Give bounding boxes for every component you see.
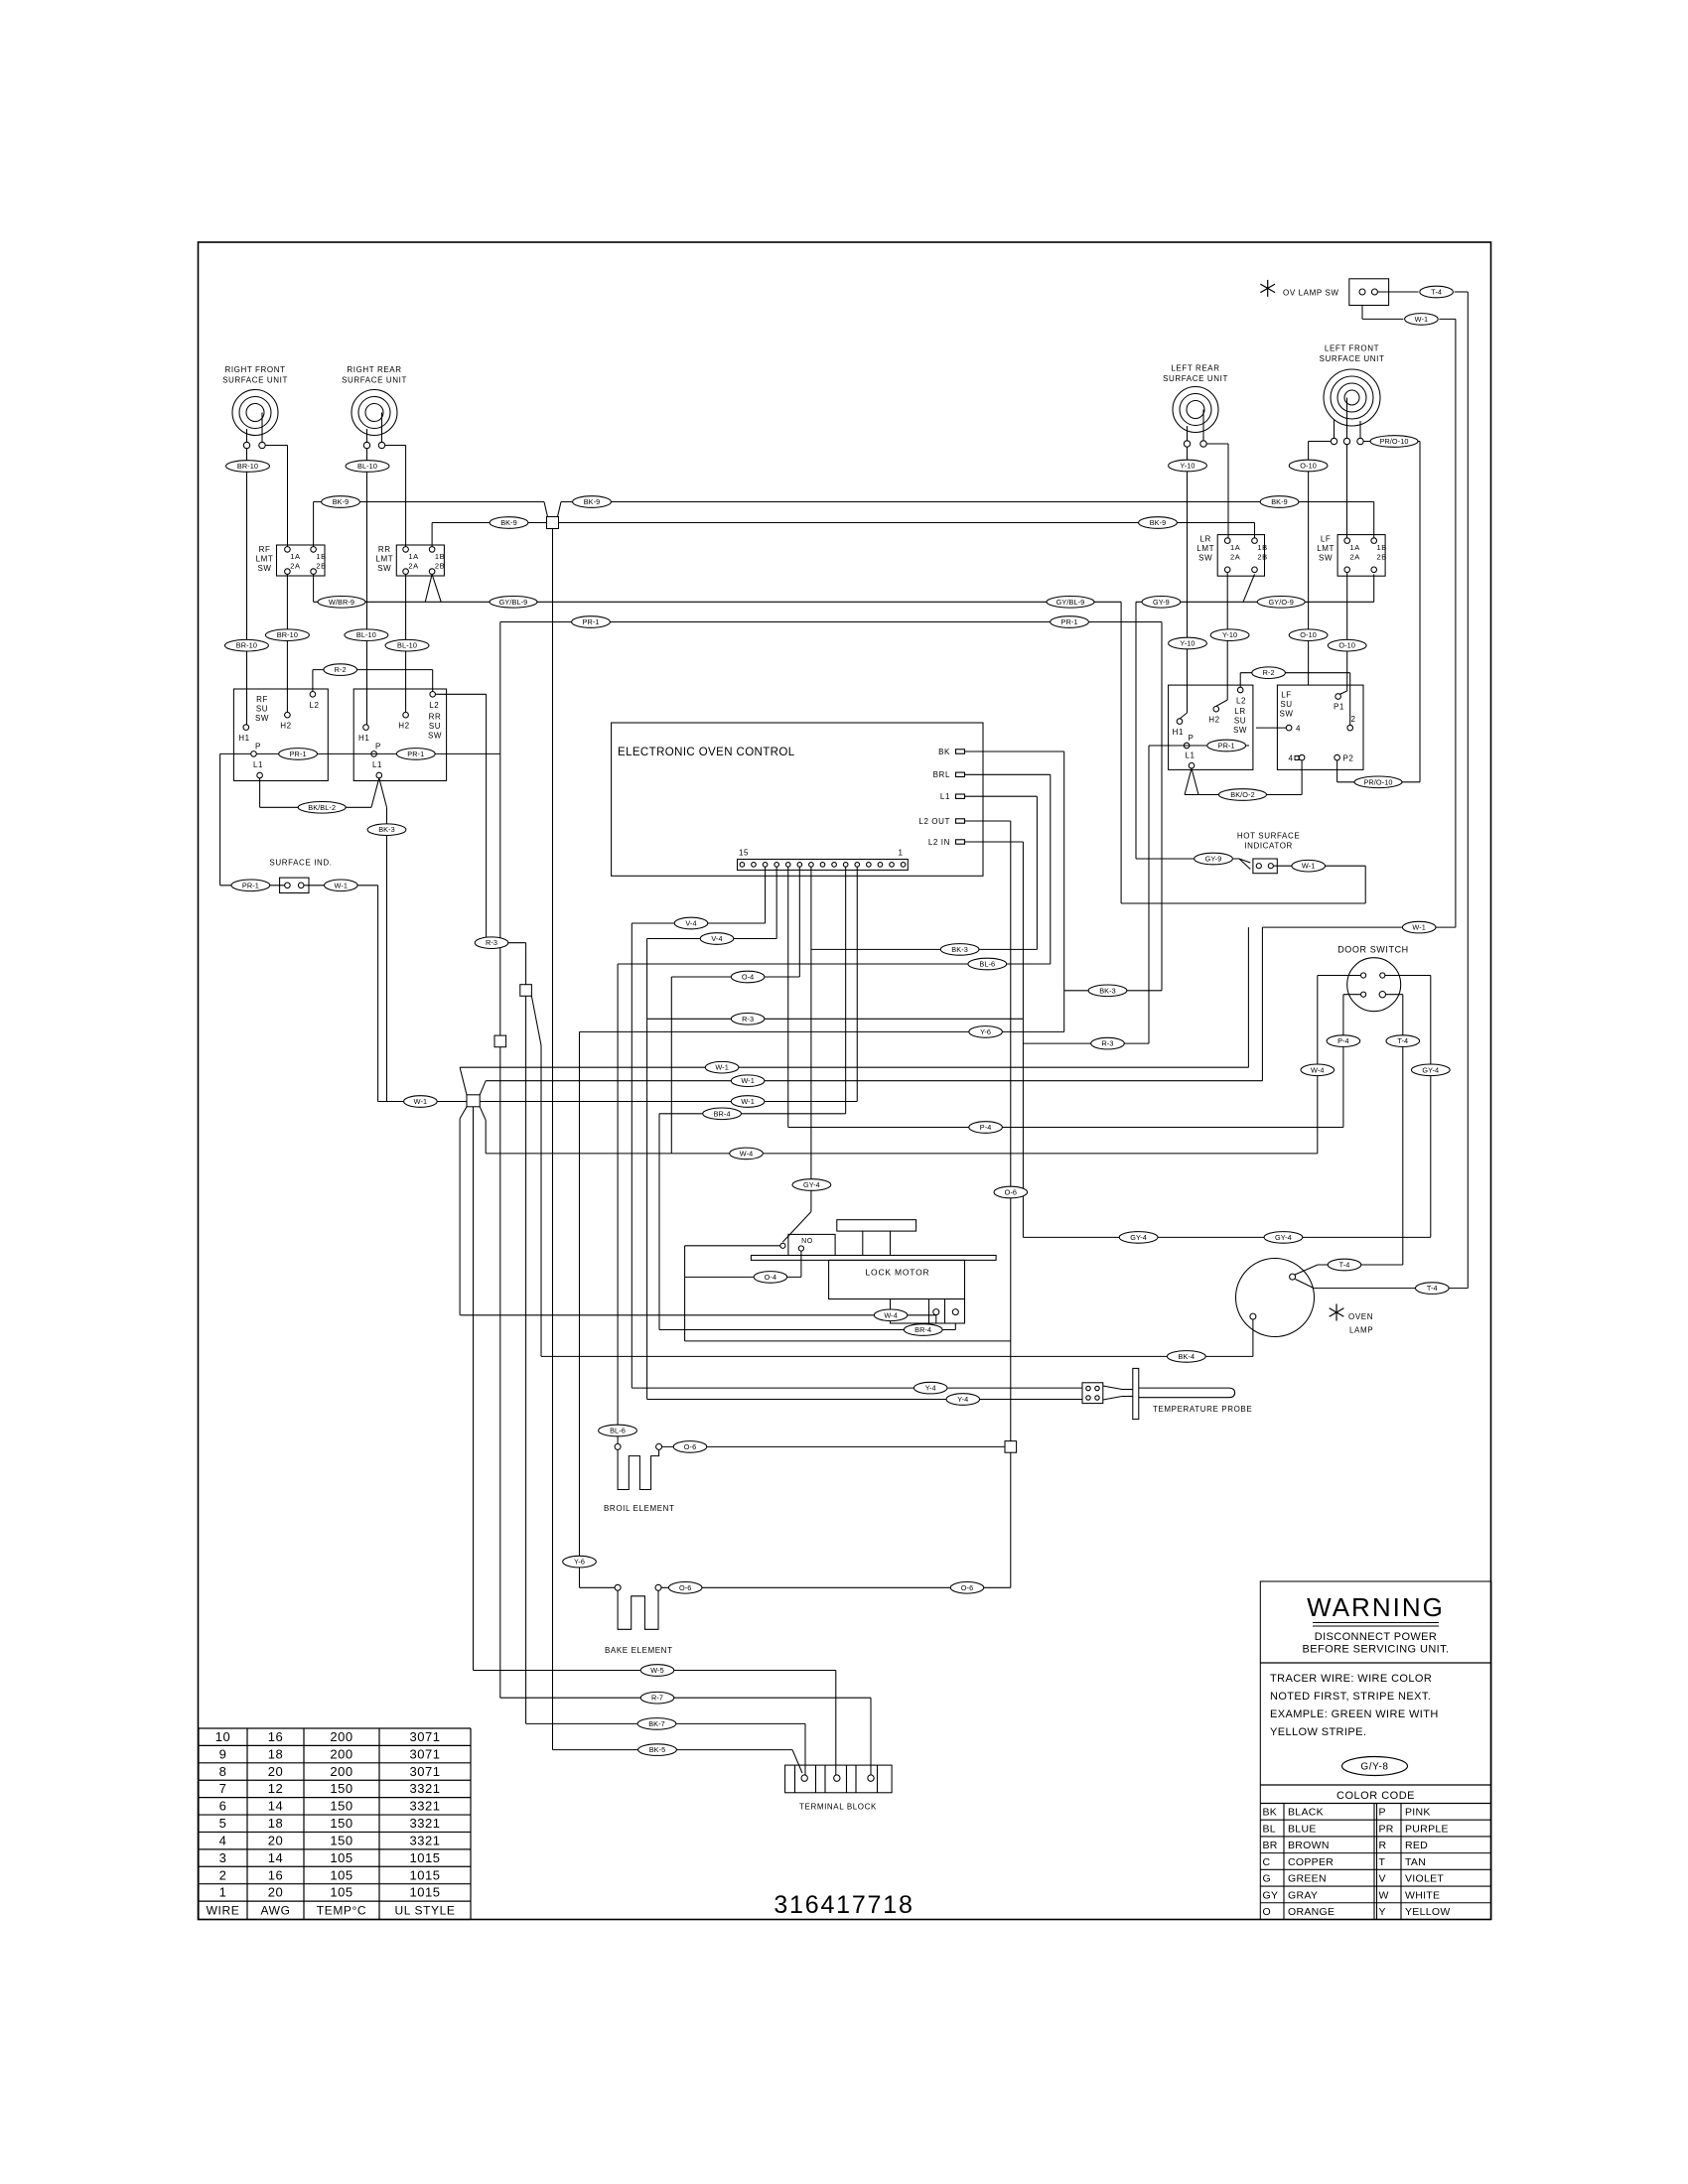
svg-text:SW: SW	[377, 564, 391, 573]
svg-text:14: 14	[268, 1799, 283, 1814]
svg-text:O-6: O-6	[684, 1442, 696, 1451]
svg-text:H1: H1	[238, 734, 249, 743]
svg-text:LAMP: LAMP	[1349, 1326, 1373, 1335]
svg-text:BROWN: BROWN	[1288, 1840, 1330, 1851]
svg-text:BR: BR	[1263, 1840, 1278, 1851]
svg-text:BK-9: BK-9	[1150, 518, 1167, 527]
svg-text:Y: Y	[1379, 1906, 1386, 1918]
svg-text:T-4: T-4	[1431, 288, 1442, 297]
svg-text:P: P	[1189, 734, 1195, 743]
svg-text:C: C	[1263, 1856, 1271, 1868]
svg-text:RED: RED	[1405, 1840, 1428, 1851]
svg-text:1015: 1015	[410, 1885, 441, 1900]
svg-text:GY-4: GY-4	[1130, 1233, 1147, 1242]
svg-text:1A: 1A	[290, 552, 300, 561]
svg-text:16: 16	[268, 1729, 283, 1744]
svg-text:BRL: BRL	[933, 770, 950, 779]
svg-text:1015: 1015	[410, 1850, 441, 1865]
svg-text:PR-1: PR-1	[290, 750, 307, 758]
svg-text:G: G	[1263, 1873, 1271, 1885]
svg-text:2A: 2A	[290, 561, 300, 570]
svg-text:1A: 1A	[1230, 543, 1240, 552]
svg-text:P: P	[375, 743, 381, 751]
svg-text:GRAY: GRAY	[1288, 1889, 1318, 1901]
svg-text:SW: SW	[257, 564, 271, 573]
svg-text:YELLOW STRIPE.: YELLOW STRIPE.	[1270, 1726, 1366, 1738]
svg-text:BROIL ELEMENT: BROIL ELEMENT	[604, 1504, 675, 1513]
svg-text:GY-4: GY-4	[803, 1180, 820, 1189]
svg-text:O-6: O-6	[1005, 1188, 1017, 1197]
svg-text:PURPLE: PURPLE	[1405, 1823, 1449, 1835]
svg-text:Y-10: Y-10	[1222, 630, 1237, 639]
svg-text:BK-9: BK-9	[500, 518, 517, 527]
svg-text:V-4: V-4	[711, 934, 722, 943]
svg-text:SU: SU	[256, 705, 268, 714]
svg-text:200: 200	[330, 1746, 352, 1761]
svg-text:P-4: P-4	[1337, 1036, 1349, 1045]
svg-text:2B: 2B	[316, 561, 326, 570]
svg-text:SURFACE UNIT: SURFACE UNIT	[1320, 354, 1385, 363]
svg-text:WHITE: WHITE	[1405, 1889, 1440, 1901]
svg-text:AWG: AWG	[260, 1904, 290, 1918]
svg-text:LMT: LMT	[256, 555, 274, 564]
svg-text:W-1: W-1	[741, 1097, 755, 1106]
svg-text:150: 150	[330, 1781, 352, 1796]
svg-text:BR-10: BR-10	[237, 462, 258, 471]
svg-text:SU: SU	[1280, 700, 1292, 709]
svg-text:W: W	[1379, 1889, 1389, 1901]
svg-text:BK: BK	[938, 748, 950, 756]
svg-text:BK-3: BK-3	[1099, 986, 1116, 995]
svg-text:1B: 1B	[316, 552, 326, 561]
svg-text:Y-6: Y-6	[574, 1558, 585, 1567]
svg-text:SURFACE UNIT: SURFACE UNIT	[342, 376, 407, 385]
svg-text:WIRE: WIRE	[207, 1904, 240, 1918]
svg-text:SW: SW	[428, 732, 442, 741]
svg-text:BL-10: BL-10	[356, 630, 376, 639]
svg-text:1015: 1015	[410, 1867, 441, 1882]
svg-text:GY/O-9: GY/O-9	[1269, 598, 1294, 607]
svg-text:LR: LR	[1234, 707, 1245, 716]
svg-text:BLUE: BLUE	[1288, 1823, 1317, 1835]
svg-text:RIGHT FRONT: RIGHT FRONT	[224, 365, 285, 374]
svg-text:NOTED FIRST, STRIPE NEXT.: NOTED FIRST, STRIPE NEXT.	[1270, 1691, 1431, 1703]
svg-text:OVEN: OVEN	[1348, 1312, 1373, 1321]
svg-text:PR-1: PR-1	[582, 617, 599, 626]
svg-text:P-4: P-4	[980, 1123, 992, 1132]
svg-text:BK-5: BK-5	[649, 1745, 666, 1754]
svg-text:COPPER: COPPER	[1288, 1856, 1334, 1868]
svg-text:SW: SW	[1198, 554, 1212, 563]
svg-text:VIOLET: VIOLET	[1405, 1873, 1444, 1885]
svg-text:3321: 3321	[410, 1781, 441, 1796]
svg-text:BR-10: BR-10	[277, 630, 298, 639]
svg-text:1B: 1B	[1377, 543, 1387, 552]
svg-text:DOOR SWITCH: DOOR SWITCH	[1337, 945, 1409, 955]
svg-text:ELECTRONIC OVEN CONTROL: ELECTRONIC OVEN CONTROL	[618, 747, 795, 758]
svg-text:BK-9: BK-9	[584, 497, 601, 506]
svg-text:BK/O-2: BK/O-2	[1230, 790, 1255, 799]
svg-text:BL-10: BL-10	[357, 462, 377, 471]
svg-text:T-4: T-4	[1339, 1261, 1350, 1270]
svg-text:L1: L1	[940, 792, 950, 801]
svg-text:RF: RF	[259, 545, 271, 554]
svg-text:G/Y-8: G/Y-8	[1360, 1762, 1388, 1773]
svg-text:PINK: PINK	[1405, 1807, 1431, 1819]
svg-text:R-2: R-2	[335, 665, 347, 674]
svg-text:L2 IN: L2 IN	[928, 838, 950, 847]
svg-text:BK-3: BK-3	[378, 825, 395, 834]
svg-text:W-1: W-1	[335, 881, 349, 889]
svg-text:RF: RF	[256, 695, 268, 704]
svg-text:HOT SURFACE: HOT SURFACE	[1237, 832, 1300, 841]
svg-text:R-3: R-3	[486, 938, 497, 947]
svg-text:Y-10: Y-10	[1180, 639, 1195, 648]
svg-text:T-4: T-4	[1397, 1036, 1408, 1045]
svg-text:20: 20	[268, 1833, 283, 1847]
svg-text:P: P	[255, 743, 261, 751]
svg-text:LOCK MOTOR: LOCK MOTOR	[866, 1268, 930, 1278]
svg-text:ORANGE: ORANGE	[1288, 1906, 1335, 1918]
svg-text:Y-4: Y-4	[957, 1395, 968, 1404]
svg-text:W-1: W-1	[414, 1097, 428, 1106]
svg-text:Y-4: Y-4	[925, 1384, 936, 1393]
svg-text:10: 10	[215, 1729, 230, 1744]
svg-text:H1: H1	[1173, 728, 1184, 737]
svg-text:BLACK: BLACK	[1288, 1807, 1324, 1819]
svg-text:3321: 3321	[410, 1816, 441, 1831]
svg-text:14: 14	[268, 1850, 283, 1865]
svg-text:W-5: W-5	[650, 1666, 664, 1675]
svg-text:O-6: O-6	[961, 1583, 973, 1592]
svg-text:150: 150	[330, 1816, 352, 1831]
svg-text:150: 150	[330, 1833, 352, 1847]
svg-text:LR: LR	[1199, 535, 1210, 544]
svg-text:2: 2	[1350, 715, 1355, 724]
svg-text:20: 20	[268, 1764, 283, 1779]
svg-text:LMT: LMT	[1317, 544, 1335, 553]
svg-text:2: 2	[219, 1867, 227, 1882]
svg-text:V: V	[1379, 1873, 1386, 1885]
svg-text:GREEN: GREEN	[1288, 1873, 1327, 1885]
svg-text:NO: NO	[801, 1238, 813, 1245]
svg-text:R-3: R-3	[742, 1015, 754, 1024]
svg-text:2B: 2B	[1377, 553, 1387, 562]
svg-text:105: 105	[330, 1850, 352, 1865]
svg-text:3071: 3071	[410, 1746, 441, 1761]
svg-text:BK-4: BK-4	[1178, 1352, 1195, 1361]
svg-text:9: 9	[219, 1746, 227, 1761]
svg-text:3321: 3321	[410, 1833, 441, 1847]
svg-text:6: 6	[219, 1799, 227, 1814]
svg-text:SU: SU	[429, 722, 441, 731]
svg-text:BK-9: BK-9	[1271, 497, 1288, 506]
svg-text:BEFORE SERVICING UNIT.: BEFORE SERVICING UNIT.	[1303, 1644, 1450, 1656]
svg-text:3071: 3071	[410, 1729, 441, 1744]
svg-text:YELLOW: YELLOW	[1405, 1906, 1451, 1918]
svg-text:BK-3: BK-3	[951, 945, 968, 954]
svg-text:BK/BL-2: BK/BL-2	[308, 803, 336, 812]
svg-text:L1: L1	[372, 760, 382, 769]
svg-text:RIGHT REAR: RIGHT REAR	[347, 365, 401, 374]
svg-text:3071: 3071	[410, 1764, 441, 1779]
svg-text:1B: 1B	[1257, 543, 1267, 552]
svg-text:18: 18	[268, 1746, 283, 1761]
svg-text:SW: SW	[1319, 554, 1333, 563]
svg-text:Y-10: Y-10	[1180, 462, 1195, 471]
svg-text:150: 150	[330, 1799, 352, 1814]
svg-text:L2: L2	[429, 701, 439, 710]
svg-text:SURFACE UNIT: SURFACE UNIT	[1163, 374, 1228, 383]
svg-text:2A: 2A	[1230, 553, 1240, 562]
svg-text:W-4: W-4	[1311, 1065, 1325, 1074]
svg-text:2B: 2B	[435, 561, 445, 570]
svg-text:GY-9: GY-9	[1153, 598, 1170, 607]
svg-text:TRACER WIRE: WIRE COLOR: TRACER WIRE: WIRE COLOR	[1270, 1673, 1432, 1685]
svg-text:3: 3	[219, 1850, 227, 1865]
svg-text:W-1: W-1	[715, 1063, 729, 1072]
svg-text:BL: BL	[1263, 1823, 1276, 1835]
svg-text:1B: 1B	[435, 552, 445, 561]
svg-text:LEFT REAR: LEFT REAR	[1171, 364, 1219, 373]
svg-text:LMT: LMT	[375, 555, 393, 564]
svg-text:BAKE ELEMENT: BAKE ELEMENT	[605, 1646, 673, 1655]
svg-text:O-10: O-10	[1338, 641, 1355, 650]
svg-text:T: T	[1379, 1856, 1386, 1868]
svg-text:O-10: O-10	[1300, 462, 1317, 471]
svg-text:L1: L1	[253, 760, 263, 769]
svg-text:2A: 2A	[1350, 553, 1360, 562]
svg-text:2A: 2A	[408, 561, 418, 570]
svg-text:PR-1: PR-1	[242, 881, 259, 889]
svg-text:INDICATOR: INDICATOR	[1244, 842, 1293, 851]
svg-text:1: 1	[898, 849, 903, 858]
svg-text:Y-6: Y-6	[980, 1027, 991, 1036]
svg-text:W-1: W-1	[1412, 923, 1426, 932]
svg-text:3321: 3321	[410, 1799, 441, 1814]
svg-text:BL-6: BL-6	[610, 1427, 626, 1435]
svg-text:L2: L2	[1236, 697, 1246, 706]
svg-text:SU: SU	[1234, 717, 1246, 726]
svg-text:RR: RR	[378, 545, 391, 554]
svg-text:316417718: 316417718	[774, 1891, 914, 1919]
svg-text:BK: BK	[1263, 1807, 1278, 1819]
svg-text:H2: H2	[398, 722, 409, 731]
svg-text:SURFACE IND.: SURFACE IND.	[269, 859, 332, 868]
svg-text:RR: RR	[429, 713, 442, 722]
svg-text:GY-9: GY-9	[1205, 855, 1222, 864]
svg-text:DISCONNECT POWER: DISCONNECT POWER	[1315, 1631, 1438, 1643]
svg-text:PR/O-10: PR/O-10	[1379, 437, 1408, 446]
svg-text:L1: L1	[1185, 751, 1195, 760]
svg-text:200: 200	[330, 1729, 352, 1744]
svg-text:L2: L2	[309, 701, 319, 710]
svg-text:4: 4	[1288, 754, 1293, 763]
svg-text:BR-4: BR-4	[714, 1109, 731, 1118]
svg-text:TEMP°C: TEMP°C	[317, 1904, 366, 1918]
svg-text:TAN: TAN	[1405, 1856, 1426, 1868]
svg-text:7: 7	[219, 1781, 227, 1796]
svg-text:W-4: W-4	[884, 1310, 898, 1319]
svg-text:EXAMPLE: GREEN WIRE WITH: EXAMPLE: GREEN WIRE WITH	[1270, 1708, 1439, 1720]
svg-text:5: 5	[219, 1816, 227, 1831]
svg-text:PR-1: PR-1	[1060, 617, 1077, 626]
svg-text:1A: 1A	[1350, 543, 1360, 552]
svg-text:O-6: O-6	[679, 1583, 691, 1592]
svg-text:W-1: W-1	[1302, 862, 1316, 871]
svg-text:L2 OUT: L2 OUT	[918, 817, 950, 826]
svg-text:4: 4	[219, 1833, 227, 1847]
svg-text:BR-10: BR-10	[236, 641, 257, 650]
svg-text:COLOR CODE: COLOR CODE	[1336, 1790, 1415, 1802]
svg-text:TEMPERATURE PROBE: TEMPERATURE PROBE	[1153, 1405, 1252, 1414]
svg-text:PR-1: PR-1	[1218, 742, 1235, 751]
svg-text:105: 105	[330, 1867, 352, 1882]
svg-text:O-4: O-4	[742, 973, 754, 982]
svg-text:W-4: W-4	[740, 1149, 754, 1158]
svg-text:R-7: R-7	[651, 1694, 663, 1703]
svg-text:SURFACE UNIT: SURFACE UNIT	[222, 376, 288, 385]
svg-text:R-3: R-3	[1101, 1039, 1113, 1048]
svg-text:BL-10: BL-10	[397, 641, 417, 650]
svg-text:W-1: W-1	[741, 1076, 755, 1085]
svg-text:H1: H1	[358, 734, 369, 743]
svg-text:TERMINAL BLOCK: TERMINAL BLOCK	[799, 1803, 877, 1812]
svg-text:H2: H2	[280, 722, 291, 731]
svg-text:WARNING: WARNING	[1307, 1592, 1445, 1622]
svg-text:2B: 2B	[1257, 553, 1267, 562]
svg-text:O-4: O-4	[765, 1273, 776, 1282]
svg-text:PR: PR	[1379, 1823, 1394, 1835]
svg-text:200: 200	[330, 1764, 352, 1779]
svg-text:LEFT FRONT: LEFT FRONT	[1325, 344, 1379, 353]
svg-text:W-1: W-1	[1415, 315, 1429, 324]
svg-text:P: P	[1379, 1807, 1386, 1819]
svg-text:20: 20	[268, 1885, 283, 1900]
svg-text:BR-4: BR-4	[914, 1325, 931, 1334]
svg-text:T-4: T-4	[1427, 1284, 1438, 1293]
svg-text:GY-4: GY-4	[1422, 1065, 1439, 1074]
svg-text:1: 1	[219, 1885, 227, 1900]
svg-text:GY-4: GY-4	[1275, 1233, 1292, 1242]
svg-text:8: 8	[219, 1764, 227, 1779]
svg-text:R-2: R-2	[1263, 668, 1275, 677]
svg-text:18: 18	[268, 1816, 283, 1831]
svg-text:PR-1: PR-1	[407, 750, 424, 758]
svg-text:LMT: LMT	[1196, 544, 1214, 553]
svg-text:PR/O-10: PR/O-10	[1363, 777, 1392, 786]
svg-text:O: O	[1263, 1906, 1271, 1918]
svg-text:OV LAMP SW: OV LAMP SW	[1283, 289, 1339, 298]
svg-text:GY/BL-9: GY/BL-9	[499, 598, 528, 607]
svg-text:W/BR-9: W/BR-9	[329, 598, 354, 607]
svg-text:BK-7: BK-7	[648, 1719, 665, 1728]
svg-text:BK-9: BK-9	[333, 497, 350, 506]
svg-text:15: 15	[739, 849, 749, 858]
svg-text:LF: LF	[1321, 535, 1332, 544]
svg-text:H2: H2	[1208, 716, 1219, 725]
svg-text:O-10: O-10	[1300, 630, 1317, 639]
svg-text:R: R	[1379, 1840, 1387, 1851]
svg-text:UL STYLE: UL STYLE	[394, 1904, 455, 1918]
svg-text:4: 4	[1296, 725, 1301, 734]
svg-text:SW: SW	[255, 714, 269, 723]
svg-text:12: 12	[268, 1781, 283, 1796]
svg-text:P2: P2	[1343, 754, 1354, 763]
svg-text:105: 105	[330, 1885, 352, 1900]
svg-text:1A: 1A	[408, 552, 418, 561]
svg-text:16: 16	[268, 1867, 283, 1882]
svg-text:GY: GY	[1263, 1889, 1279, 1901]
svg-text:V-4: V-4	[685, 919, 696, 928]
svg-text:P1: P1	[1334, 703, 1344, 712]
svg-text:BL-6: BL-6	[979, 960, 995, 969]
svg-text:SW: SW	[1279, 710, 1293, 719]
svg-text:LF: LF	[1281, 691, 1292, 700]
svg-text:SW: SW	[1233, 726, 1247, 735]
svg-text:GY/BL-9: GY/BL-9	[1056, 598, 1085, 607]
